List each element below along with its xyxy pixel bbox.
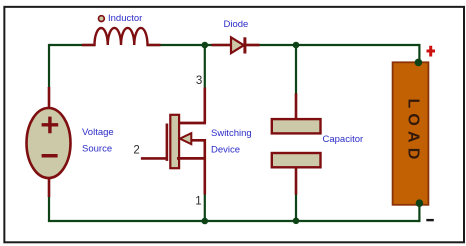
wire drain column green — [204, 45, 206, 89]
junction node capacitor top — [293, 42, 300, 49]
wire capacitor column top green — [295, 45, 297, 95]
minus terminal symbol — [426, 219, 434, 221]
svg-text:Diode: Diode — [224, 19, 249, 30]
svg-text:LOAD: LOAD — [405, 98, 422, 164]
junction node load bottom — [416, 199, 424, 207]
junction node capacitor bottom — [293, 218, 300, 225]
wire source column green — [204, 194, 206, 221]
diode — [212, 37, 260, 53]
wire capacitor column bottom green — [295, 194, 297, 222]
wire top middle (inductor to diode node to cap node to right corner) — [147, 44, 419, 46]
svg-text:1: 1 — [195, 196, 201, 208]
wire top-left horizontal — [49, 44, 95, 46]
svg-text:Inductor: Inductor — [108, 13, 142, 24]
svg-text:2: 2 — [133, 145, 139, 157]
svg-text:3: 3 — [196, 75, 202, 87]
transistor Q1 switching device (MOSFET) — [141, 88, 206, 195]
inductor marker circle — [99, 16, 105, 22]
inductor — [82, 28, 161, 45]
wire right bottom vertical (from load) — [418, 205, 420, 223]
svg-text:Voltage: Voltage — [82, 127, 114, 138]
svg-text:Capacitor: Capacitor — [323, 134, 364, 145]
svg-text:Switching: Switching — [211, 128, 252, 139]
svg-text:Source: Source — [82, 144, 112, 155]
junction node source bottom — [202, 218, 209, 225]
svg-text:Device: Device — [211, 145, 240, 156]
junction node load top — [415, 59, 423, 67]
load block — [393, 62, 429, 205]
wire left vertical upper — [48, 44, 50, 89]
capacitor C1 — [272, 94, 321, 195]
plus terminal symbol — [427, 46, 436, 57]
wire bottom horizontal — [48, 220, 420, 222]
voltage source V1 — [27, 87, 71, 197]
wire right top vertical (to load) — [418, 44, 420, 63]
wire left vertical lower — [48, 196, 50, 221]
junction node diode/drain top — [202, 42, 209, 49]
